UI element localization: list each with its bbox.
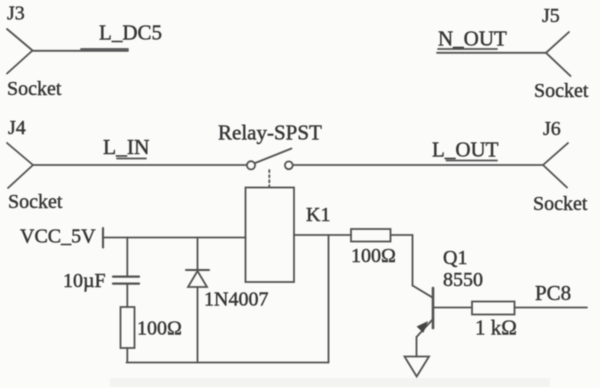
connector J3 <box>7 29 33 74</box>
transistor Q1 collector lead <box>413 286 434 298</box>
svg-text:L_OUT: L_OUT <box>432 138 499 162</box>
wire cap bottom lead <box>126 285 128 308</box>
svg-text:L_DC5: L_DC5 <box>99 21 162 45</box>
svg-text:J5: J5 <box>542 5 560 27</box>
wire L_DC5 net <box>33 50 129 52</box>
wire base lead <box>433 307 472 309</box>
svg-text:100Ω: 100Ω <box>137 318 182 340</box>
wire L_IN net <box>33 164 247 166</box>
svg-text:Relay-SPST: Relay-SPST <box>218 121 322 145</box>
svg-text:J3: J3 <box>7 3 25 25</box>
node L_IN underline <box>117 158 146 160</box>
wire VCC rail <box>103 237 246 239</box>
svg-text:VCC_5V: VCC_5V <box>20 226 96 248</box>
svg-text:L_IN: L_IN <box>103 135 150 159</box>
node L_OUT underline <box>447 160 498 162</box>
wire resistor to collector <box>391 235 413 286</box>
connector J6 <box>543 143 568 188</box>
wire N_OUT net <box>437 52 546 54</box>
transistor Q1 base bar <box>432 288 435 328</box>
wire diode top lead <box>197 238 199 271</box>
capacitor C 10uF <box>113 277 139 284</box>
relay switch arm <box>255 149 291 164</box>
svg-text:PC8: PC8 <box>535 281 571 305</box>
wire L_OUT net <box>293 164 543 166</box>
svg-text:Socket: Socket <box>8 191 63 213</box>
wire resistor bottom lead <box>126 348 128 363</box>
svg-text:Socket: Socket <box>7 78 62 100</box>
svg-text:K1: K1 <box>306 204 330 226</box>
svg-text:J6: J6 <box>543 118 561 140</box>
wire emitter to ground <box>416 337 418 357</box>
svg-text:Socket: Socket <box>534 80 589 102</box>
wire K1 junction vertical <box>328 235 330 363</box>
relay actuator dotted link <box>268 170 270 187</box>
svg-text:8550: 8550 <box>443 269 483 291</box>
connector J4 <box>7 143 33 188</box>
resistor R 100ohm vertical <box>121 307 135 348</box>
relay coil K1 box <box>246 188 295 283</box>
resistor R 1kohm <box>472 302 515 315</box>
transistor Q1 emitter lead <box>417 319 434 337</box>
wire diode bottom lead <box>197 287 199 363</box>
svg-text:1N4007: 1N4007 <box>204 289 268 311</box>
faint bottom artifact band <box>110 378 550 387</box>
wire cap top lead <box>126 238 128 276</box>
relay switch Relay-SPST contacts <box>247 161 293 169</box>
connector J5 <box>546 32 571 76</box>
transistor Q1 emitter arrow <box>417 322 427 332</box>
svg-text:Socket: Socket <box>533 193 588 215</box>
ground symbol <box>405 357 430 377</box>
wire K1 node <box>294 234 351 236</box>
node L_DC5 underline <box>81 48 128 50</box>
svg-text:10µF: 10µF <box>63 270 106 292</box>
svg-text:100Ω: 100Ω <box>351 245 396 267</box>
svg-text:J4: J4 <box>8 117 26 139</box>
diode D 1N4007 <box>186 270 209 287</box>
svg-text:N_OUT: N_OUT <box>438 27 507 51</box>
node N_OUT underline <box>438 48 497 50</box>
VCC_5V terminal tick <box>102 228 104 248</box>
wire PC8 net <box>515 307 588 309</box>
resistor R 100ohm horizontal <box>351 229 391 242</box>
svg-text:Q1: Q1 <box>443 247 467 269</box>
svg-text:1 kΩ: 1 kΩ <box>475 316 517 340</box>
wire bottom return <box>127 362 329 364</box>
